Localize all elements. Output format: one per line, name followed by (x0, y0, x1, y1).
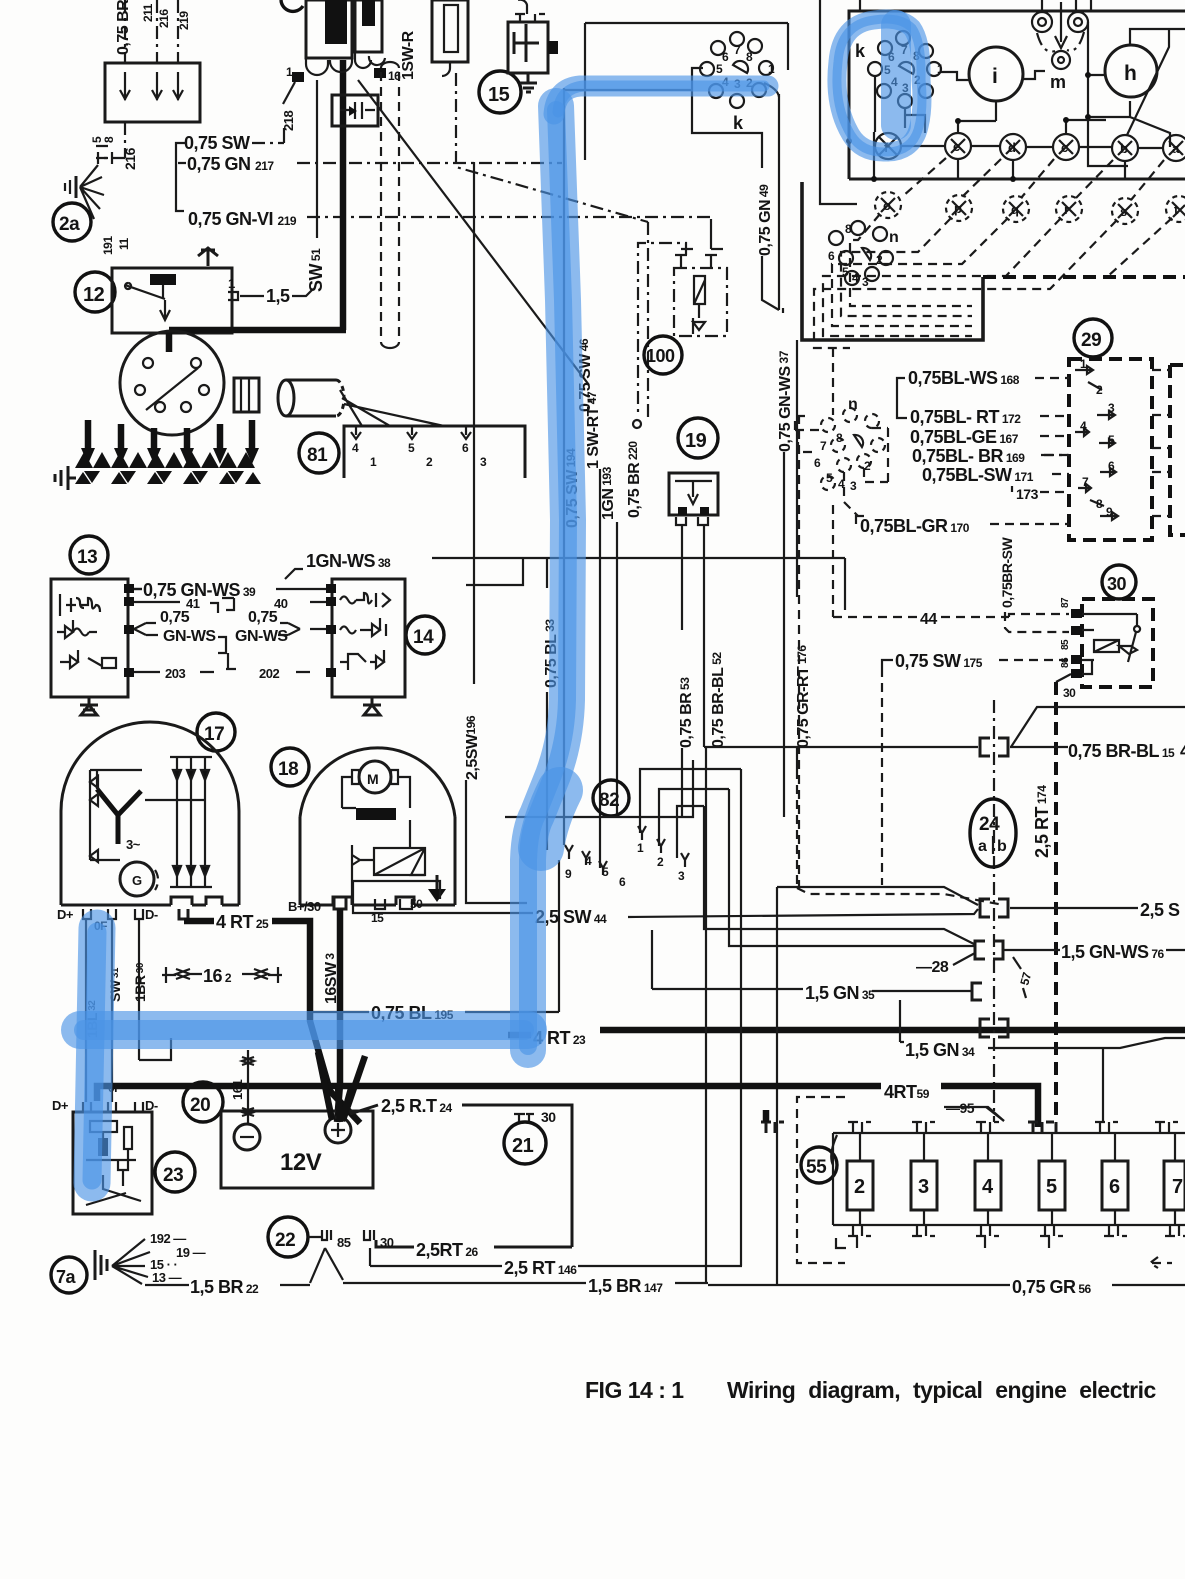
m arrow (1055, 2, 1067, 48)
wire 1,5 GN 35 (652, 930, 803, 989)
wire 2,5 RT 146 (370, 1265, 502, 1267)
box 14 internals (340, 593, 390, 670)
wire 176 vertical solid part (796, 340, 798, 597)
svg-text:p: p (954, 201, 962, 216)
coil cylinder (278, 380, 344, 416)
relay internals 30 (1082, 614, 1140, 674)
capacitor box beside coil (332, 95, 378, 126)
box 14 pins (326, 584, 336, 677)
box 14 (332, 579, 405, 697)
switch contacts inside 12 (125, 283, 170, 320)
connector box top-left (105, 63, 200, 122)
wires D+/DF/D- down to regulator 23 (86, 919, 171, 1102)
wire from coil pin1 to 218 (283, 82, 295, 104)
wire dash-dot up (156, 0, 158, 63)
k pin labels (716, 43, 775, 91)
bus line under 82 (505, 760, 693, 817)
wire 196 vertical (473, 162, 475, 684)
fuse internal stubs (860, 1133, 1175, 1225)
svg-text:D-: D- (145, 907, 158, 922)
single connector GN-WS 76 (975, 941, 1003, 959)
svg-text:8: 8 (746, 50, 753, 64)
connector pair at BR-BL 154 (980, 738, 1008, 756)
svg-text:14: 14 (413, 627, 434, 648)
svg-text:a: a (978, 838, 987, 855)
svg-text:100: 100 (646, 346, 675, 366)
wire 0,75 GR 56 (706, 1283, 1010, 1285)
svg-text:6: 6 (828, 249, 835, 263)
wire 217 dash-dot (297, 162, 562, 164)
svg-text:81: 81 (307, 445, 328, 466)
82 pin hooks diagonal group (565, 826, 689, 875)
wire down to box100 right pin (710, 219, 712, 249)
svg-text:85: 85 (1060, 639, 1071, 650)
terminals under 17 (83, 909, 143, 919)
svg-text:161: 161 (230, 1080, 245, 1100)
spark gap comb row (75, 452, 261, 484)
wire 1,5 GN 34 (900, 1000, 904, 1042)
wires up from 82 pins (640, 769, 741, 858)
ground arrow right of 18 (436, 875, 439, 889)
side tab (548, 41, 558, 54)
box 13 pins (124, 584, 134, 677)
wire pin1 to gauge i (941, 72, 969, 80)
svg-text:GN-WS: GN-WS (235, 628, 288, 645)
m dash-dot V (1037, 32, 1084, 52)
G exciter circle (120, 862, 154, 896)
wire dash-dot up (177, 0, 179, 63)
wire 216 dash-dot up from connector (124, 0, 126, 63)
blue highlight: top horizontal run (554, 86, 768, 114)
vacuum unit on distributor (234, 378, 259, 412)
wire 44 dashed (833, 614, 1069, 617)
svg-text:7: 7 (734, 43, 741, 57)
box 30 heavy dashed (1082, 599, 1153, 687)
oval 24 a|b (970, 799, 1016, 867)
coil B pin 16 (374, 68, 386, 78)
internal cluster wiring (901, 146, 1163, 148)
blue highlight: left vertical band (92, 928, 97, 1183)
top long horizontal wire (585, 22, 788, 24)
svg-text:6: 6 (1109, 1176, 1120, 1198)
thick wire 4 RT 23 (508, 1032, 531, 1039)
box 19 (669, 473, 718, 515)
svg-text:15: 15 (488, 84, 510, 106)
dashed path to 24ab connector (797, 888, 1004, 905)
svg-text:0,75BR-SW: 0,75BR-SW (999, 537, 1015, 608)
hooks below 19 (676, 517, 708, 525)
wire 52 vertical (703, 525, 705, 747)
svg-text:219: 219 (177, 11, 191, 30)
box 29 right partial box (1170, 365, 1185, 535)
svg-text:b: b (997, 838, 1007, 855)
svg-text:0,75 BR-BL 15: 0,75 BR-BL 15 (1068, 741, 1175, 761)
svg-text:i: i (992, 65, 997, 88)
svg-text:23: 23 (163, 1165, 183, 1186)
svg-text:3~: 3~ (126, 837, 141, 852)
svg-text:85: 85 (337, 1235, 351, 1250)
bracket joining 217/219 labels (176, 143, 186, 211)
box 13 (51, 579, 128, 697)
svg-text:n: n (889, 229, 898, 246)
ignition coil A outline (306, 0, 352, 58)
svg-text:FIG 14 : 1: FIG 14 : 1 (585, 1377, 684, 1403)
solenoid relay (342, 808, 425, 897)
svg-text:3: 3 (678, 869, 685, 883)
svg-text:30: 30 (380, 1235, 394, 1250)
svg-text:50: 50 (410, 897, 423, 911)
svg-text:86: 86 (1060, 657, 1071, 668)
left tall dashed verticals (799, 348, 833, 888)
svg-text:2: 2 (657, 855, 664, 869)
circle 2a (53, 203, 91, 241)
inline fuse 161 vertical (242, 1050, 254, 1124)
svg-text:q: q (1011, 202, 1019, 217)
box 30 pins (1071, 609, 1082, 678)
svg-text:8: 8 (1096, 497, 1103, 511)
svg-text:5: 5 (716, 62, 723, 76)
svg-text:k: k (733, 113, 744, 133)
svg-text:d: d (1008, 140, 1016, 155)
svg-text:1: 1 (637, 841, 644, 855)
svg-text:1BR 30: 1BR 30 (132, 962, 148, 1002)
heavy step line (802, 182, 983, 340)
cluster outer box (849, 11, 1185, 179)
svg-text:5: 5 (1108, 433, 1115, 447)
svg-text:192 —: 192 — (150, 1231, 186, 1246)
svg-text:2: 2 (876, 253, 883, 267)
wires k pins to f lamp (875, 76, 905, 132)
svg-text:9: 9 (1106, 505, 1113, 519)
svg-text:7: 7 (1082, 475, 1089, 489)
svg-text:6: 6 (619, 875, 626, 889)
svg-text:7: 7 (1172, 1176, 1183, 1198)
svg-text:D+: D+ (52, 1098, 69, 1113)
svg-text:3: 3 (850, 479, 857, 493)
svg-text:2: 2 (426, 455, 433, 469)
stator Y (97, 789, 141, 844)
distributor feed thick elbow (169, 60, 346, 352)
svg-text:7: 7 (820, 439, 827, 453)
wire 38 (285, 558, 845, 610)
svg-text:5: 5 (842, 265, 849, 279)
charge indicator m terminals (1032, 12, 1088, 69)
thick wire 16SW3 down (337, 909, 340, 1122)
svg-text:6: 6 (462, 441, 469, 455)
svg-text:5: 5 (408, 441, 415, 455)
svg-text:202: 202 (259, 666, 279, 681)
wire SW46 under blue: vertical (563, 88, 565, 845)
svg-text:19: 19 (685, 430, 707, 452)
cut circle at top edge (281, 0, 303, 11)
coil B core (362, 0, 375, 26)
svg-text:B+/30: B+/30 (288, 899, 321, 914)
nested dashed channel (850, 214, 972, 306)
spark plug leads (6 thick with arrows) (81, 420, 259, 464)
wire h connections (1088, 22, 1185, 166)
svg-text:3: 3 (918, 1176, 929, 1198)
dashed enclosure left part (797, 1097, 1172, 1268)
circle 30 (1102, 565, 1136, 599)
svg-text:87: 87 (1060, 597, 1071, 608)
svg-text:—28: —28 (916, 959, 949, 976)
svg-text:o: o (883, 198, 891, 213)
dashes box29 to right box (1152, 370, 1170, 516)
left leg of top wire (584, 23, 586, 160)
svg-text:0,75: 0,75 (248, 609, 278, 626)
right leg of top wire (787, 23, 789, 70)
circle 13 (70, 536, 108, 574)
box 100 pins (675, 249, 723, 268)
gauge h (1105, 45, 1157, 97)
junction dots (846, 117, 1069, 182)
bottom hooks (836, 1225, 1185, 1248)
wire 1,5 BR 147 (343, 1282, 586, 1284)
ground below 14 (363, 697, 381, 715)
circle 22 (268, 1217, 308, 1257)
GN34 wire into pin (1102, 1048, 1104, 1122)
rectifier in 17 (97, 757, 212, 887)
blue highlight: jog blob at 82 pins (541, 790, 560, 848)
svg-text:4: 4 (585, 854, 592, 868)
cable loom tube dashed (381, 72, 399, 338)
wire SW51 thin vertical (316, 80, 318, 238)
T symbol inside (514, 24, 539, 62)
wires to GN-WS76 connector (704, 789, 974, 946)
svg-text:Wiring diagram, typical engine: Wiring diagram, typical engine electric (727, 1377, 1157, 1403)
k connector pins (700, 32, 773, 108)
alternator dome (61, 722, 239, 905)
wire 2,5 R.T 24 (350, 1105, 378, 1114)
svg-text:2a: 2a (59, 214, 80, 235)
svg-text:6: 6 (722, 50, 729, 64)
regulator box 23 (73, 1112, 152, 1214)
svg-text:30: 30 (541, 1109, 556, 1125)
label bracket 168 (897, 378, 907, 418)
dashed wire BR-SW down from box29 (1005, 540, 1069, 632)
wire 193 vertical (616, 522, 618, 817)
wire 196 lower (466, 558, 527, 903)
fuse rails (833, 1133, 1185, 1225)
blue highlight: bar inside ring (881, 25, 911, 125)
svg-text:0,75 GN-WS 39: 0,75 GN-WS 39 (143, 580, 256, 600)
ground 7a (51, 1257, 87, 1293)
svg-text:8: 8 (845, 222, 852, 236)
inline fuse 16 2 (162, 967, 282, 983)
svg-text:21: 21 (512, 1135, 534, 1157)
left outer wire into cluster (820, 0, 857, 204)
label bracket 173 (856, 486, 1012, 524)
circle 17 (197, 713, 235, 751)
box 12 (112, 268, 232, 333)
svg-text:3: 3 (480, 455, 487, 469)
wire 0,75 BL 195 (310, 1011, 369, 1013)
blue highlight: bottom horizontal band (80, 1011, 528, 1049)
svg-text:D+: D+ (57, 907, 74, 922)
svg-text:7a: 7a (56, 1267, 77, 1287)
svg-text:173: 173 (1016, 486, 1039, 502)
svg-text:D-: D- (145, 1098, 158, 1113)
svg-text:30: 30 (1107, 574, 1127, 594)
svg-text:6: 6 (814, 456, 821, 470)
wire 1,5 (240, 295, 264, 297)
wire 53 vertical (681, 525, 683, 630)
terminal stubs 5 8 (96, 146, 108, 158)
pin 30 of 21 (514, 1114, 534, 1122)
k connector bracket (692, 68, 762, 168)
svg-text:11: 11 (117, 237, 131, 250)
cylinder to box81 wires (340, 390, 444, 426)
coil B outline (355, 0, 382, 52)
dash-dot vertical through 24ab (993, 700, 995, 1122)
svg-text:3: 3 (1108, 401, 1115, 415)
dashed wires around n connector (795, 416, 888, 516)
circle 15 (479, 71, 521, 113)
dashes from labels to box29 (990, 378, 1069, 524)
svg-text:12: 12 (83, 284, 105, 306)
svg-text:1: 1 (228, 276, 235, 291)
motor dome (300, 748, 455, 905)
svg-text:5: 5 (602, 865, 609, 879)
svg-text:GN-WS: GN-WS (163, 628, 216, 645)
svg-text:1SW-R: 1SW-R (400, 30, 417, 80)
circle 29 (1074, 319, 1112, 357)
svg-text:8: 8 (836, 431, 843, 445)
coil A pin 1 (292, 72, 304, 82)
svg-text:44: 44 (920, 611, 937, 628)
thick wire 4 RT 59 (97, 1086, 881, 1101)
wire under blue horizontal to k pin (564, 89, 691, 91)
svg-text:0,75: 0,75 (160, 609, 190, 626)
left arrows in 17 (90, 770, 142, 862)
circle 20 (183, 1082, 223, 1122)
svg-text:12V: 12V (280, 1149, 322, 1176)
svg-text:0,75 SW: 0,75 SW (184, 133, 250, 153)
wire 2,5RT174 from pin 30 (1056, 674, 1071, 682)
M motor circle (359, 761, 391, 793)
wire 49 below label (762, 256, 779, 310)
cluster pin labels (884, 43, 944, 95)
svg-text:55: 55 (806, 1157, 827, 1178)
ballast resistor component (432, 0, 468, 62)
svg-text:5: 5 (826, 471, 833, 485)
connector pair on thick 4RT23 (980, 1019, 1008, 1037)
upper n connector (829, 221, 893, 285)
single connector 1,5 GN 35 (972, 983, 982, 1000)
svg-text:20: 20 (190, 1095, 210, 1116)
diagonal from pin to wire 37 (764, 83, 779, 97)
cluster k pins (868, 31, 941, 108)
relay inside 100 (693, 276, 705, 334)
circle 100 (644, 336, 682, 374)
coil B arcs (355, 52, 385, 68)
wire 219 dash-dot to box 100 (307, 216, 711, 218)
svg-text:G: G (132, 873, 142, 888)
lamp f (875, 133, 901, 159)
circle 55 (801, 1147, 837, 1183)
svg-text:3: 3 (862, 275, 869, 289)
svg-text:2,5 S: 2,5 S (1140, 900, 1180, 920)
wire 2,5 S (777, 887, 1138, 908)
wire 2,5 SW 44 (353, 881, 533, 913)
box 13 internals (57, 594, 116, 668)
wire 216 below connector (124, 122, 126, 158)
gauge i (969, 47, 1023, 101)
dash-dot vertical to label 220 (647, 222, 649, 419)
thick feeds into fusebox pins (761, 1122, 1056, 1133)
svg-text:1: 1 (1080, 357, 1087, 371)
svg-text:1,5: 1,5 (266, 286, 290, 306)
diagonal dashes solid lamps to dashed lamps (903, 158, 1164, 200)
svg-text:218: 218 (281, 111, 296, 131)
svg-text:h: h (1124, 62, 1136, 85)
dash-dot wire from plug down (456, 73, 648, 222)
distributor inner contacts (135, 358, 209, 412)
circle 19 (678, 418, 718, 458)
svg-text:1: 1 (286, 65, 293, 79)
long verticals to bottom area (706, 747, 777, 1285)
circle 82 (593, 780, 629, 816)
wire 37 vertical (779, 94, 783, 313)
svg-text:9: 9 (565, 867, 572, 881)
svg-text:8: 8 (102, 136, 116, 143)
svg-text:k: k (855, 41, 866, 61)
svg-text:22: 22 (275, 1230, 295, 1251)
long diagonal wire to 1SW-RT47 (358, 80, 589, 385)
svg-text:6: 6 (1108, 459, 1115, 473)
svg-text:19 —: 19 — (176, 1245, 206, 1260)
svg-text:1: 1 (768, 62, 775, 76)
thick leads fan into + (318, 1052, 365, 1122)
svg-text:e: e (953, 139, 960, 154)
box 81 (344, 426, 525, 478)
battery box (221, 1111, 373, 1188)
svg-text:r: r (1064, 202, 1069, 217)
wire 176 lower part (796, 748, 798, 770)
wire 33 vertical (546, 558, 548, 850)
ground above box 12 (198, 248, 218, 266)
svg-text:4: 4 (1080, 419, 1087, 433)
T-box top hook (515, 0, 545, 22)
T-suppressor box (508, 22, 548, 73)
svg-text:24: 24 (979, 814, 1000, 835)
svg-text:4: 4 (1180, 741, 1185, 761)
svg-text:n: n (848, 396, 857, 413)
svg-text:29: 29 (1081, 330, 1101, 351)
svg-text:30: 30 (1063, 686, 1076, 700)
svg-text:M: M (367, 771, 378, 787)
wire 1,5 GN-WS 76 (1003, 949, 1060, 951)
lower n connector (821, 408, 885, 490)
blue highlight: ring around k cluster (837, 19, 922, 152)
box 100 dash-dot (674, 268, 727, 336)
svg-text:2: 2 (1096, 383, 1103, 397)
svg-text:203: 203 (165, 666, 185, 681)
svg-text:s: s (1120, 204, 1127, 219)
pin hook of ballast (442, 62, 450, 76)
dash-dot terminal o near 19 (638, 243, 686, 416)
circle 21 (504, 1122, 546, 1164)
lamp row e d c b a (945, 133, 1185, 161)
svg-text:0,75 BR 2: 0,75 BR 2 (115, 0, 132, 55)
label 57 rotated (1013, 957, 1021, 969)
svg-text:18: 18 (278, 759, 298, 780)
svg-text:13: 13 (77, 547, 97, 568)
wire 0,75 BR-BL 154 (704, 707, 1185, 747)
circle 81 (299, 433, 339, 473)
svg-text:b: b (1120, 141, 1128, 156)
circle 18 (271, 748, 309, 786)
